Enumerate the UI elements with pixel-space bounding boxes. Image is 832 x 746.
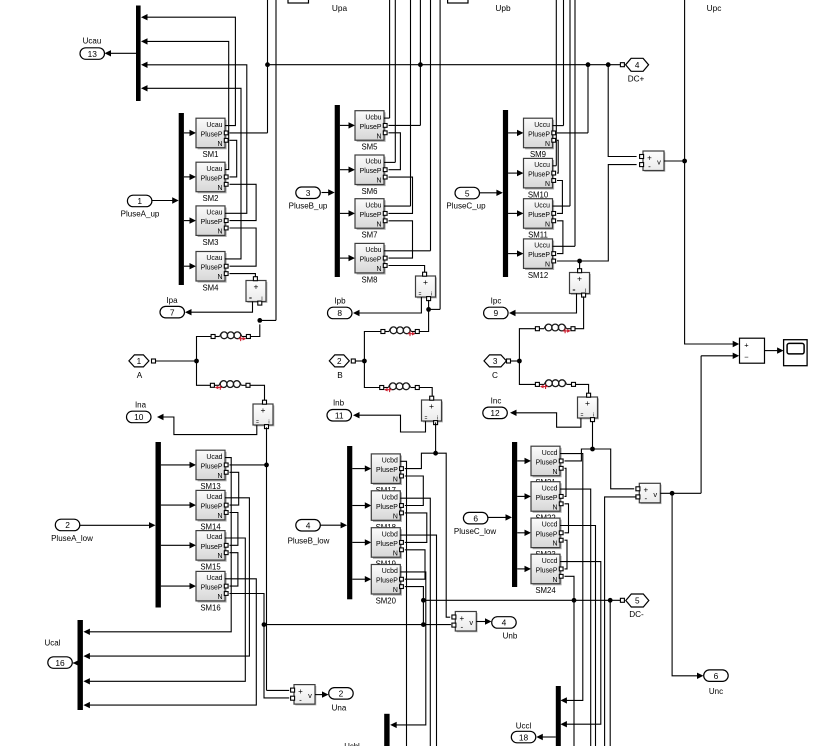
svg-text:4: 4 xyxy=(306,520,311,530)
wire SM21.Uccd to Uccl mux xyxy=(560,454,583,701)
svg-text:Ina: Ina xyxy=(135,401,147,410)
current sensor xyxy=(416,272,437,300)
svg-text:N: N xyxy=(545,141,550,148)
svg-text:SM24: SM24 xyxy=(535,586,556,595)
wire sensor C node to Unc plus xyxy=(593,449,635,489)
svg-text:2: 2 xyxy=(65,520,70,530)
svg-text:N: N xyxy=(218,229,223,236)
svg-text:N: N xyxy=(393,587,398,594)
svg-text:N: N xyxy=(553,504,558,511)
svg-text:Ipa: Ipa xyxy=(166,296,178,305)
wire sensor A upper bottom node xyxy=(251,324,260,336)
svg-text:Uccu: Uccu xyxy=(534,202,550,209)
svg-text:Ucbd: Ucbd xyxy=(382,494,398,501)
wire Unc output to sum minus xyxy=(700,356,702,494)
svg-text:Ucbu: Ucbu xyxy=(365,114,381,121)
svg-text:Uccd: Uccd xyxy=(542,485,558,492)
wire SM11.N to SM12.P xyxy=(557,221,563,254)
subsystem SM16 xyxy=(196,571,228,602)
wire DC+ rail xyxy=(268,64,621,66)
subsystem SM9 xyxy=(524,118,556,149)
svg-text:PluseB_up: PluseB_up xyxy=(289,202,328,211)
svg-text:PluseP: PluseP xyxy=(201,463,223,470)
wire SM3.Ucau to mux xyxy=(147,65,247,214)
svg-text:PluseA_up: PluseA_up xyxy=(121,210,160,219)
wire SM1.P to DC+ riser xyxy=(230,132,268,134)
subsystem SM21 xyxy=(531,446,563,477)
port hexagon 1 phase A xyxy=(129,355,149,367)
wire SM6.Ucbu to riser xyxy=(384,161,395,163)
svg-text:PluseC_low: PluseC_low xyxy=(454,527,496,536)
wire SM5.Ucbu to riser xyxy=(384,117,390,119)
svg-text:+: + xyxy=(261,405,266,415)
svg-text:N: N xyxy=(553,541,558,548)
svg-text:5: 5 xyxy=(465,188,470,198)
voltage sensor xyxy=(636,483,662,504)
wire demux to SM7 xyxy=(340,212,349,214)
current sensor xyxy=(253,400,274,428)
subsystem SM12 xyxy=(524,239,556,270)
svg-text:PluseC_up: PluseC_up xyxy=(446,202,486,211)
svg-text:Uccd: Uccd xyxy=(542,522,558,529)
svg-text:4: 4 xyxy=(635,61,640,70)
wire demux to SM10 xyxy=(508,172,517,174)
svg-text:10: 10 xyxy=(134,412,144,422)
wire Unc output to oval 6 xyxy=(672,493,697,676)
svg-text:PluseP: PluseP xyxy=(201,504,223,511)
svg-text:N: N xyxy=(393,550,398,557)
svg-text:N: N xyxy=(377,221,382,228)
wire demux to SM4 xyxy=(184,265,190,267)
wire Unc minus down xyxy=(605,497,637,746)
wire SM15.N to SM16.P xyxy=(230,553,238,586)
wire node C to upper inductor xyxy=(519,329,535,361)
subsystem SM5 xyxy=(355,111,387,142)
svg-text:Ipc: Ipc xyxy=(491,297,502,306)
wire sensor A lower to SM13.P and Una plus xyxy=(266,427,268,690)
wire SM9.P to DC+ riser xyxy=(557,132,588,134)
svg-text:PluseP: PluseP xyxy=(201,175,223,182)
subsystem SM19 xyxy=(371,528,403,559)
wire mux to oval13 xyxy=(111,52,137,54)
wire SM7.N to SM8.P xyxy=(389,221,413,258)
svg-text:−: − xyxy=(744,352,749,361)
wire lower inductor C to sensor xyxy=(576,384,589,394)
svg-text:N: N xyxy=(218,594,223,601)
subsystem SM23 xyxy=(531,518,563,549)
wire node A to lower inductor xyxy=(197,361,211,385)
svg-text:Ucbu: Ucbu xyxy=(365,159,381,166)
svg-text:PluseP: PluseP xyxy=(528,252,550,259)
wire Udc output to riser xyxy=(664,160,685,162)
svg-text:6: 6 xyxy=(714,671,719,681)
svg-text:Ucau: Ucau xyxy=(206,255,222,262)
wire sensor B node to Unb plus xyxy=(436,453,451,617)
wire oval5 to demux xyxy=(480,192,497,194)
svg-text:+: + xyxy=(423,277,428,287)
wire SM7.Ucbu to riser xyxy=(384,205,411,207)
svg-text:PluseP: PluseP xyxy=(201,265,223,272)
port hexagon 2 phase B xyxy=(329,355,349,367)
voltage sensor xyxy=(452,612,478,633)
wire SM8.Ucbu to riser xyxy=(384,250,431,252)
wire Unc output node xyxy=(660,492,701,494)
inport oval 6 xyxy=(463,512,488,524)
wire SM22.Uccd down xyxy=(560,489,591,746)
svg-text:PluseP: PluseP xyxy=(201,131,223,138)
wire SM7.Ucbu riser xyxy=(410,0,412,206)
svg-text:Uccu: Uccu xyxy=(534,243,550,250)
wire sensor B upper signal to Ipb xyxy=(359,297,421,313)
svg-text:PluseP: PluseP xyxy=(536,459,558,466)
wire SM14.N to SM15.P xyxy=(230,513,238,546)
inductor xyxy=(210,381,250,390)
subsystem SM10 xyxy=(524,158,556,189)
svg-text:N: N xyxy=(377,266,382,273)
wire phase B arm-sense riser xyxy=(439,0,441,309)
wire demux to SM16 xyxy=(161,585,190,587)
svg-text:Upb: Upb xyxy=(495,3,511,13)
svg-text:+: + xyxy=(744,340,749,349)
subsystem SM3 xyxy=(196,206,228,237)
wire sensor B lower to SM17.P xyxy=(435,422,437,453)
wire DC+ to Udc v-block plus xyxy=(608,65,636,157)
wire DC- rail xyxy=(423,599,620,601)
svg-text:Ucau: Ucau xyxy=(206,210,222,217)
wire SM4.Ucau to mux xyxy=(147,88,241,259)
svg-text:Unc: Unc xyxy=(709,687,723,696)
mux Uccl (cut at bottom) xyxy=(556,686,561,746)
wire SM16.Ucad to Ucal mux xyxy=(90,579,257,705)
svg-text:N: N xyxy=(553,469,558,476)
svg-text:A: A xyxy=(137,371,143,380)
wire hexagon A to node xyxy=(156,360,197,362)
svg-text:+: + xyxy=(429,401,434,411)
svg-text:DC-: DC- xyxy=(629,610,644,619)
wire demux to SM2 xyxy=(184,176,190,178)
svg-text:1: 1 xyxy=(137,357,142,366)
wire SM2.N to SM3.P xyxy=(230,184,257,220)
svg-text:Ucbd: Ucbd xyxy=(382,531,398,538)
svg-text:PluseP: PluseP xyxy=(536,567,558,574)
wire SM19.Ucbd down xyxy=(400,535,436,746)
svg-text:9: 9 xyxy=(494,308,499,318)
svg-text:SM3: SM3 xyxy=(202,238,218,247)
wire SM9.Uccu to riser xyxy=(553,125,564,127)
svg-text:=: = xyxy=(573,288,576,294)
svg-text:N: N xyxy=(377,133,382,140)
subsystem SM1 xyxy=(196,118,228,149)
wire demux to SM1 xyxy=(184,132,190,134)
wire SM3.N to SM4.P xyxy=(230,228,257,266)
svg-text:PluseP: PluseP xyxy=(536,531,558,538)
wire DC- drop at right xyxy=(609,600,611,746)
wire demux to SM9 xyxy=(508,132,517,134)
demux bar phase C upper xyxy=(503,110,508,277)
svg-text:PluseP: PluseP xyxy=(201,544,223,551)
svg-text:11: 11 xyxy=(335,410,344,420)
svg-text:PluseP: PluseP xyxy=(528,131,550,138)
svg-text:1: 1 xyxy=(137,196,142,206)
outport oval 2 Una xyxy=(329,688,354,700)
svg-text:3: 3 xyxy=(306,188,311,198)
wire Upc signal riser to sum block xyxy=(685,0,733,344)
inductor xyxy=(381,327,419,336)
svg-text:PluseP: PluseP xyxy=(528,172,550,179)
outport oval 7 Ipa xyxy=(160,306,185,318)
svg-text:Ucbu: Ucbu xyxy=(365,247,381,254)
svg-text:Uccu: Uccu xyxy=(534,162,550,169)
inport oval 3 xyxy=(296,187,321,199)
wire oval2 to demux xyxy=(80,524,149,526)
svg-text:13: 13 xyxy=(88,49,98,59)
svg-text:Ucad: Ucad xyxy=(206,494,222,501)
wire SM12.N to Udc v-block minus xyxy=(557,165,637,261)
wire SM20.Ucbd to Ucbl mux xyxy=(396,572,425,725)
wire demux to SM6 xyxy=(340,169,349,171)
wire SM8.Ucbu riser xyxy=(430,0,432,251)
svg-text:Una: Una xyxy=(332,703,347,712)
svg-text:-: - xyxy=(648,162,651,171)
svg-text:=: = xyxy=(256,420,259,426)
wire SM17.Ucbd down xyxy=(400,461,406,746)
svg-text:PluseP: PluseP xyxy=(536,495,558,502)
demux bar phase A upper xyxy=(179,113,184,285)
svg-text:PluseP: PluseP xyxy=(376,504,398,511)
outport oval 13 Ucau xyxy=(80,48,105,60)
outport oval 4 Unb xyxy=(492,617,517,629)
wire sensor C lower signal to Inc xyxy=(516,413,581,427)
wire SM9.Uccu riser xyxy=(563,0,565,126)
wire SM18.Ucbd down xyxy=(400,498,430,746)
wire SM15.Ucad to Ucal mux xyxy=(90,538,246,681)
current sensor xyxy=(246,277,267,305)
svg-text:SM16: SM16 xyxy=(200,603,220,612)
wire sensor C lower to SM21.P xyxy=(565,421,593,461)
svg-text:PluseP: PluseP xyxy=(360,212,382,219)
svg-text:Ucad: Ucad xyxy=(206,575,222,582)
wire Uccl mux to oval 18 xyxy=(541,736,556,738)
svg-text:PluseP: PluseP xyxy=(376,578,398,585)
svg-text:PluseP: PluseP xyxy=(528,212,550,219)
svg-text:Ucbl: Ucbl xyxy=(344,742,360,746)
wire SM14.Ucad to Ucal mux xyxy=(90,498,250,656)
wire SM20.N to DC- and link xyxy=(405,587,424,625)
wire SM12.Uccu riser xyxy=(574,0,576,246)
wire demux to SM12 xyxy=(508,253,517,255)
svg-text:Ucau: Ucau xyxy=(206,166,222,173)
wire SM18.N to SM19.P xyxy=(405,513,427,543)
subsystem SM24 xyxy=(531,554,563,585)
svg-text:4: 4 xyxy=(502,618,507,628)
wire SM1.N to SM2.P xyxy=(230,140,237,177)
svg-text:16: 16 xyxy=(55,658,65,668)
svg-text:-: - xyxy=(644,494,647,503)
svg-text:PluseP: PluseP xyxy=(376,541,398,548)
inport oval 2 xyxy=(55,519,80,531)
subsystem SM13 xyxy=(196,450,228,481)
svg-text:SM6: SM6 xyxy=(361,187,377,196)
wire demux to SM24 xyxy=(517,568,525,570)
wire node C to lower inductor xyxy=(519,361,535,384)
svg-text:+: + xyxy=(585,398,590,408)
subsystem SM4 xyxy=(196,252,228,283)
demux bar phase B upper xyxy=(335,105,340,277)
wire SM6.N to SM7.P xyxy=(389,177,413,213)
sum block xyxy=(740,338,765,363)
wire demux to SM19 xyxy=(352,541,365,543)
svg-text:=: = xyxy=(249,296,252,302)
wire SM5.N to SM6.P xyxy=(389,133,401,170)
wire demux to SM22 xyxy=(517,495,525,497)
inductor xyxy=(380,383,420,392)
svg-text:N: N xyxy=(218,274,223,281)
inport oval 1 xyxy=(127,195,151,207)
subsystem SM18 xyxy=(371,491,403,522)
inport oval 4 xyxy=(296,520,321,532)
svg-text:PluseP: PluseP xyxy=(201,585,223,592)
wire demux to SM21 xyxy=(517,460,525,462)
svg-text:18: 18 xyxy=(519,732,529,742)
svg-text:N: N xyxy=(377,178,382,185)
svg-text:Inb: Inb xyxy=(333,399,345,408)
voltage sensor xyxy=(291,685,317,706)
svg-text:7: 7 xyxy=(170,307,175,317)
outport oval 11 Inb xyxy=(327,410,352,422)
svg-text:SM20: SM20 xyxy=(376,597,397,606)
wire demux to SM3 xyxy=(184,220,190,222)
wire SM5.Ucbu riser xyxy=(389,0,391,118)
svg-text:+: + xyxy=(254,282,259,292)
port hexagon 5 DC- xyxy=(626,594,649,607)
wire demux to SM5 xyxy=(340,124,349,126)
svg-text:Uccl: Uccl xyxy=(516,722,532,731)
wire demux to SM17 xyxy=(352,468,365,470)
scope block xyxy=(784,340,808,366)
svg-text:Ucad: Ucad xyxy=(206,534,222,541)
svg-text:v: v xyxy=(653,490,657,499)
svg-text:Inc: Inc xyxy=(491,397,502,406)
svg-text:SM5: SM5 xyxy=(361,143,378,152)
svg-text:=: = xyxy=(419,292,422,298)
svg-text:v: v xyxy=(657,158,661,167)
wire SM10.Uccu to riser xyxy=(553,165,557,167)
svg-text:Ipb: Ipb xyxy=(334,297,346,306)
wire oval6 to demux xyxy=(488,516,506,518)
wire SM2.Ucau to mux xyxy=(147,41,229,169)
wire demux to SM15 xyxy=(161,544,190,546)
inport oval 5 xyxy=(455,187,480,199)
svg-text:PluseP: PluseP xyxy=(360,257,382,264)
svg-text:N: N xyxy=(218,553,223,560)
wire SM9.N to SM10.P xyxy=(557,140,558,173)
wire oval4 to demux xyxy=(320,524,341,526)
wire SM13.N to SM14.P xyxy=(230,472,239,505)
svg-text:SM2: SM2 xyxy=(202,194,218,203)
svg-text:N: N xyxy=(218,141,223,148)
svg-text:SM4: SM4 xyxy=(202,284,219,293)
svg-text:12: 12 xyxy=(490,408,500,418)
svg-text:N: N xyxy=(393,513,398,520)
wire SM5.P to DC+ riser xyxy=(389,124,421,126)
wire demux to SM11 xyxy=(508,212,517,214)
svg-text:2: 2 xyxy=(339,689,344,699)
outport oval 18 Uccl xyxy=(511,731,536,743)
mux Ucbl (cut at bottom) xyxy=(384,714,389,746)
wire sensor C upper signal to Ipc xyxy=(515,294,577,314)
wire demux to SM13 xyxy=(161,464,190,466)
svg-text:8: 8 xyxy=(337,308,342,318)
wire SM13.Ucad to Ucal mux xyxy=(90,458,232,632)
svg-text:2: 2 xyxy=(337,357,342,366)
svg-text:PluseB_low: PluseB_low xyxy=(288,537,330,546)
wire sensor B lower signal to Inb xyxy=(359,415,426,432)
svg-text:Ucad: Ucad xyxy=(206,454,222,461)
wire demux to SM18 xyxy=(352,505,365,507)
wire SM24.N to DC- and down xyxy=(565,576,575,746)
svg-text:B: B xyxy=(337,371,343,380)
wire sensor A lower signal to Ina xyxy=(163,417,257,435)
svg-text:SM10: SM10 xyxy=(528,190,549,199)
current sensor xyxy=(570,269,591,297)
svg-text:5: 5 xyxy=(635,597,640,606)
subsystem SM11 xyxy=(524,199,556,230)
svg-text:N: N xyxy=(218,473,223,480)
svg-text:Uccu: Uccu xyxy=(534,122,550,129)
wire hexagon B to node xyxy=(355,360,364,362)
svg-text:6: 6 xyxy=(473,513,478,523)
svg-text:=: = xyxy=(425,416,428,422)
svg-text:3: 3 xyxy=(493,357,498,366)
subsystem SM14 xyxy=(196,490,228,521)
wire node B to upper inductor xyxy=(364,332,380,362)
svg-text:N: N xyxy=(393,477,398,484)
wire SM4.N to sensor A upper xyxy=(230,274,256,278)
wire SM21.N to SM22.P xyxy=(565,468,567,496)
subsystem SM22 xyxy=(531,482,563,513)
wire demux to SM23 xyxy=(517,532,525,534)
wire phase A arm-sense riser xyxy=(275,0,277,320)
svg-text:SM7: SM7 xyxy=(361,231,377,240)
svg-text:N: N xyxy=(553,577,558,584)
current sensor xyxy=(578,393,599,421)
subsystem SM6 xyxy=(355,155,387,186)
wire demux to SM20 xyxy=(352,578,365,580)
outport oval 12 Inc xyxy=(483,407,508,419)
wire SM10.N to SM11.P xyxy=(557,181,562,214)
wire node A to upper inductor xyxy=(197,337,212,362)
wire sensor A upper signal to Ipa xyxy=(191,302,253,313)
outport oval 8 Ipb xyxy=(328,307,353,319)
svg-text:DC+: DC+ xyxy=(628,75,645,84)
svg-text:PluseP: PluseP xyxy=(360,168,382,175)
svg-text:N: N xyxy=(545,221,550,228)
wire node B to lower inductor xyxy=(364,361,379,388)
block Upb (cut at top) xyxy=(448,0,468,3)
svg-text:Uccd: Uccd xyxy=(542,558,558,565)
wire lower inductor B to sensor xyxy=(419,388,432,398)
wire SM1.Ucau to mux xyxy=(147,17,235,125)
demux bar phase C lower xyxy=(512,442,517,587)
wire SM17.N to SM18.P xyxy=(405,476,424,506)
wire SM1.P riser to DC+ and top xyxy=(267,0,269,133)
wire hexagon C to node xyxy=(511,360,520,362)
wire demux to SM14 xyxy=(161,504,190,506)
wire oval1 to demux xyxy=(152,200,173,202)
wire SM23.Uccd down xyxy=(560,526,596,746)
svg-text:Ucau: Ucau xyxy=(206,122,222,129)
wire SM5.P riser to DC+ and top xyxy=(419,0,421,125)
